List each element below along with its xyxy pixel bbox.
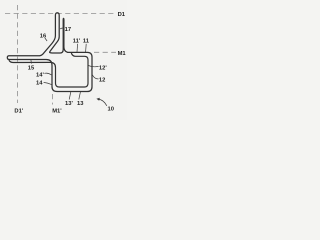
svg-text:13: 13 [77, 101, 84, 107]
leader for 16 [45, 38, 47, 41]
leader for 12 [92, 75, 98, 79]
arrow for 10 [98, 99, 107, 106]
svg-text:D1': D1' [14, 108, 23, 114]
leader for 13' [69, 92, 71, 100]
leader for 12' [88, 66, 98, 67]
leader for 14 [44, 82, 52, 84]
axis line M1 (horizontal dashed) [94, 51, 116, 53]
svg-text:14': 14' [36, 72, 44, 78]
leader for 11' [76, 44, 79, 52]
svg-text:12: 12 [99, 78, 105, 84]
axis line D1 (horizontal dashed) [5, 12, 116, 14]
svg-text:12': 12' [99, 65, 107, 71]
leader for 11 [85, 44, 88, 52]
svg-text:10: 10 [108, 106, 114, 112]
profile outer wall (strip 17, diagonal 16, lip 15, groove lip, tube outer walls 11/12/13/14) [7, 13, 92, 92]
svg-text:14: 14 [36, 81, 43, 87]
axis line D1' (vertical dashed) [17, 5, 19, 103]
svg-text:M1: M1 [118, 51, 127, 57]
svg-text:13': 13' [65, 101, 73, 107]
leader for 17 [60, 27, 64, 30]
leader for 13 [79, 92, 81, 100]
tube inner wall (chamber) continuing into lip underside [9, 53, 88, 87]
leader for 15 [30, 60, 33, 64]
svg-text:11': 11' [73, 39, 81, 45]
svg-text:M1': M1' [52, 108, 62, 114]
svg-text:15: 15 [28, 66, 35, 72]
svg-text:17: 17 [65, 27, 71, 33]
svg-text:D1: D1 [118, 12, 126, 18]
svg-text:16: 16 [40, 33, 47, 39]
svg-text:11: 11 [83, 39, 90, 45]
axis line M1' (vertical dashed) [52, 94, 54, 105]
background [0, 0, 127, 120]
leader for 14' [44, 73, 51, 75]
